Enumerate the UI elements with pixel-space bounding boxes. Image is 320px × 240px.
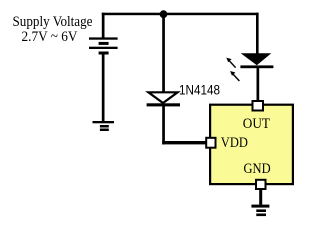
wire LED to OUT pin: [257, 67, 260, 101]
pin OUT: [253, 101, 264, 111]
wire GND pin to ground: [259, 190, 262, 205]
svg-text:OUT: OUT: [243, 116, 270, 132]
IC U1 body: [210, 105, 293, 184]
node junction dot: [160, 10, 168, 18]
LED D2: [240, 53, 273, 68]
LED arrow 1: [226, 58, 235, 68]
wire battery bottom: [102, 54, 105, 121]
wire to VDD pin: [162, 141, 206, 144]
svg-text:1N4148: 1N4148: [179, 82, 220, 98]
pin GND: [256, 180, 266, 189]
LED arrow 2: [230, 71, 239, 81]
diode D1 1N4148: [147, 92, 180, 106]
svg-text:Supply Voltage: Supply Voltage: [13, 14, 93, 30]
wire middle vertical: [162, 13, 165, 92]
ground right: [251, 205, 269, 217]
svg-text:GND: GND: [244, 161, 271, 177]
wire right vertical: [256, 13, 259, 54]
svg-text:2.7V ~ 6V: 2.7V ~ 6V: [22, 29, 78, 45]
wire battery top: [102, 13, 105, 38]
svg-text:VDD: VDD: [221, 135, 248, 151]
battery BT1: [89, 37, 118, 54]
pin VDD: [206, 138, 215, 148]
ground left: [93, 121, 115, 131]
wire top horizontal: [102, 13, 259, 16]
wire diode to corner: [162, 106, 165, 144]
